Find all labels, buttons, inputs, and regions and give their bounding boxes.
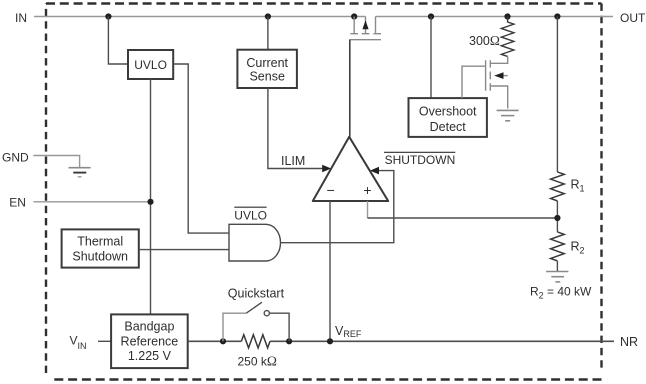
svg-text:Sense: Sense: [249, 69, 284, 83]
pass transistor Q1 (PMOS): [349, 17, 381, 40]
wire AND gate output to SHUTDOWN arrow: [281, 171, 394, 243]
junction dot on IN rail (current sense branch): [265, 13, 271, 19]
resistor 300 ohm: [501, 17, 514, 57]
svg-text:R2 = 40 kW: R2 = 40 kW: [530, 285, 592, 301]
svg-text:Reference: Reference: [121, 334, 179, 348]
svg-text:Quickstart: Quickstart: [228, 287, 285, 301]
junction dot on OUT rail (overshoot branch): [428, 13, 434, 19]
svg-text:R2: R2: [571, 240, 585, 256]
svg-text:IN: IN: [15, 11, 27, 25]
junction dot EN node: [147, 199, 153, 205]
svg-text:Thermal: Thermal: [77, 234, 123, 248]
ground GND pin symbol: [69, 168, 91, 177]
svg-text:ILIM: ILIM: [281, 154, 305, 168]
svg-text:Overshoot: Overshoot: [419, 105, 477, 119]
wire UVLO bottom down through EN node to bandgap: [150, 79, 152, 314]
svg-text:NR: NR: [620, 335, 638, 349]
ground under Q2: [497, 110, 519, 120]
wire UVLO right output down to AND gate input: [173, 64, 229, 233]
ground under R2: [546, 272, 568, 282]
wire R1 to R2: [556, 201, 558, 232]
UVLO block: [128, 50, 173, 79]
wire error amp non-inverting input to feedback node: [367, 201, 369, 218]
svg-text:R1: R1: [571, 178, 585, 194]
wire IN top rail: [34, 16, 613, 18]
switch Quickstart: [223, 302, 289, 341]
junction dot VREF node: [327, 338, 333, 344]
junction dot on IN rail (pass FET source): [351, 13, 357, 19]
Bandgap Reference block: [111, 314, 188, 368]
Overshoot Detect block: [409, 98, 487, 137]
wire OUT rail to Overshoot Detect: [430, 17, 432, 99]
svg-text:SHUTDOWN: SHUTDOWN: [385, 153, 456, 167]
wire error amp inverting input to VREF: [329, 201, 331, 341]
wire Thermal Shutdown output to AND gate: [139, 249, 230, 251]
junction dot on OUT rail (R1 branch): [554, 13, 560, 19]
junction dot on IN rail (UVLO branch): [105, 13, 111, 19]
junction dot feedback node: [554, 215, 560, 221]
wire GND pin: [33, 156, 79, 168]
wire Q1 gate to error amp output: [349, 40, 351, 137]
svg-text:Detect: Detect: [430, 120, 467, 134]
wire EN pin: [33, 201, 150, 203]
resistor R1: [551, 172, 565, 201]
wire 250k to NR: [270, 340, 614, 342]
svg-text:250 kΩ: 250 kΩ: [238, 354, 277, 369]
svg-text:Current: Current: [246, 56, 288, 70]
node SHUTDOWN label with overline: [384, 152, 455, 167]
wire R2 to ground: [556, 261, 558, 271]
wire Current Sense output to ILIM arrow: [268, 88, 323, 169]
transistor Q2 (PMOS, overshoot clamp): [486, 57, 508, 109]
svg-text:UVLO: UVLO: [134, 58, 167, 72]
junction dot quickstart right: [286, 338, 292, 344]
wire bandgap output / VREF rail to NR: [188, 340, 242, 342]
svg-text:VIN: VIN: [70, 334, 87, 352]
wire OUT rail down to R1: [556, 17, 558, 172]
ILIM arrowhead into error amp: [322, 165, 331, 173]
resistor R2: [551, 232, 565, 261]
svg-text:VREF: VREF: [335, 324, 362, 339]
svg-text:+: +: [363, 182, 371, 198]
svg-text:UVLO: UVLO: [234, 209, 267, 223]
svg-text:1.225 V: 1.225 V: [128, 349, 172, 363]
op-amp U1 (error amplifier): [313, 137, 388, 201]
wire IN rail to Current Sense box: [267, 17, 269, 50]
node UVLO label with overline (AND input): [234, 207, 267, 222]
wire VIN to bandgap: [98, 340, 111, 342]
Thermal Shutdown block: [62, 229, 139, 267]
svg-text:Bandgap: Bandgap: [124, 319, 174, 333]
svg-text:OUT: OUT: [620, 11, 646, 25]
svg-text:Shutdown: Shutdown: [72, 249, 128, 263]
resistor 250 k: [241, 335, 270, 348]
Current Sense block: [237, 50, 297, 88]
junction dot quickstart left: [220, 338, 226, 344]
svg-text:EN: EN: [9, 195, 26, 209]
wire IN rail to UVLO box: [108, 17, 128, 65]
junction dot on OUT rail (300 ohm branch): [504, 13, 510, 19]
svg-text:300Ω: 300Ω: [469, 33, 500, 48]
svg-text:GND: GND: [2, 151, 29, 165]
SHUTDOWN arrowhead into error amp: [370, 167, 379, 175]
wire Q2 gate to Overshoot Detect: [462, 66, 486, 98]
AND gate: [229, 224, 281, 261]
svg-text:−: −: [327, 182, 335, 198]
